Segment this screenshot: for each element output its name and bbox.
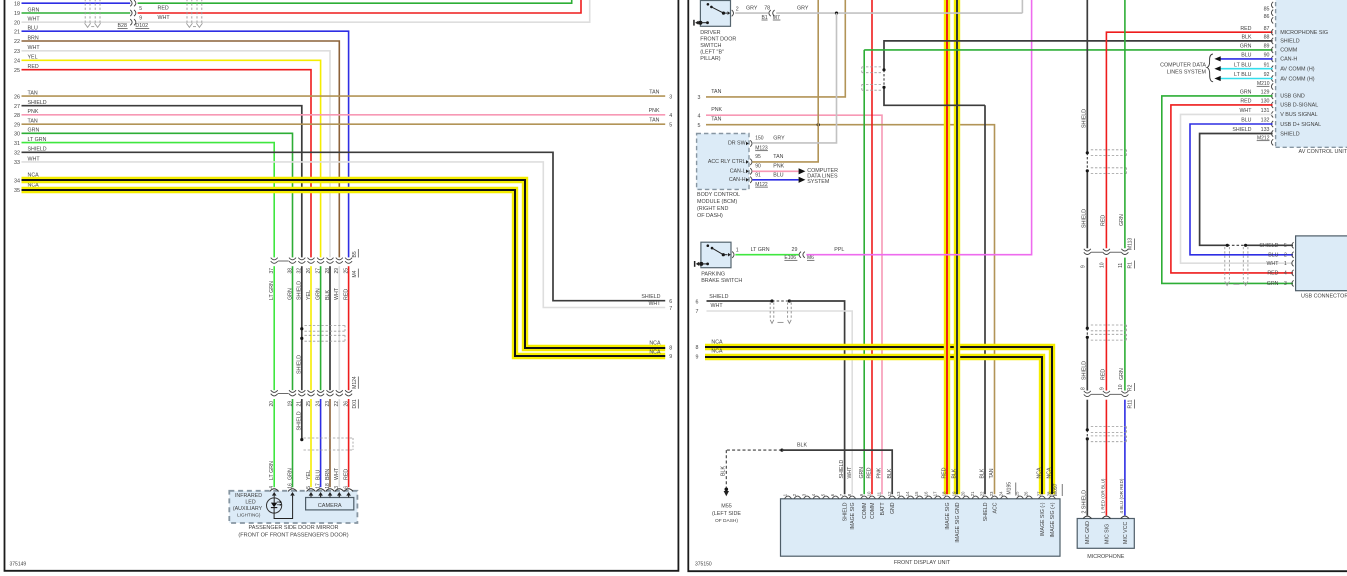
svg-text:TAN: TAN	[773, 154, 783, 160]
svg-text:BLU: BLU	[315, 470, 321, 480]
svg-text:38: 38	[287, 268, 293, 274]
svg-text:2 SHIELD: 2 SHIELD	[1082, 490, 1088, 514]
svg-text:BLU: BLU	[1241, 118, 1251, 124]
svg-text:78: 78	[764, 6, 770, 12]
ground symbol M55	[725, 488, 729, 492]
svg-text:LIGHTING): LIGHTING)	[237, 512, 261, 517]
svg-text:DR SW: DR SW	[728, 141, 746, 147]
svg-text:IMAGE SIG (-): IMAGE SIG (-)	[1040, 502, 1046, 536]
svg-text:WHT: WHT	[847, 466, 853, 479]
svg-text:BLK: BLK	[980, 468, 986, 478]
svg-text:COMPUTER DATA: COMPUTER DATA	[1160, 63, 1206, 69]
right page border	[688, 0, 1347, 571]
wire 19 GRN (left of B28)	[22, 12, 131, 14]
svg-text:1: 1	[1284, 261, 1287, 267]
svg-text:SHIELD: SHIELD	[297, 355, 303, 374]
svg-text:95: 95	[755, 154, 761, 160]
wire 22 BRN turns down	[22, 41, 340, 257]
svg-text:SHIELD: SHIELD	[297, 281, 303, 300]
svg-text:AV COMM (H): AV COMM (H)	[1280, 67, 1315, 73]
BCM tap junction on wire 5	[817, 123, 820, 126]
svg-text:SHIELD: SHIELD	[1280, 131, 1300, 137]
svg-text:GRY: GRY	[746, 6, 758, 12]
PPL wire to top edge	[806, 0, 1031, 255]
wire 30 GRN turns down	[22, 133, 293, 257]
svg-text:17: 17	[933, 491, 938, 496]
svg-text:NCA: NCA	[649, 349, 661, 355]
svg-text:4: 4	[811, 493, 816, 496]
svg-text:19: 19	[952, 491, 957, 496]
svg-text:LT GRN: LT GRN	[269, 281, 275, 300]
wire 4 PNK from left edge down to display BATT	[706, 115, 882, 494]
svg-text:RED: RED	[1240, 99, 1251, 105]
svg-text:M113: M113	[1128, 238, 1134, 250]
svg-text:FRONT DISPLAY UNIT: FRONT DISPLAY UNIT	[894, 560, 951, 566]
LED wiring to pin 16	[274, 496, 293, 519]
svg-text:AV CONTROL UNIT: AV CONTROL UNIT	[1299, 149, 1347, 155]
inline connector R2/R11 (mic pigtail)	[1084, 391, 1091, 393]
svg-text:TAN: TAN	[649, 118, 659, 124]
svg-text:SHIELD: SHIELD	[1082, 109, 1088, 128]
svg-text:32: 32	[297, 268, 303, 274]
shield termination dot and dashed shield box above mirror	[300, 438, 303, 441]
svg-text:GRN: GRN	[315, 288, 321, 300]
svg-text:5: 5	[139, 6, 142, 12]
svg-text:6: 6	[830, 493, 835, 496]
COMM RED vertical from top to display	[871, 0, 873, 494]
svg-text:GRN: GRN	[287, 288, 293, 300]
svg-text:SHIELD: SHIELD	[983, 502, 989, 521]
svg-text:23: 23	[14, 49, 20, 55]
door switch ground	[698, 21, 702, 25]
svg-text:150: 150	[755, 136, 764, 142]
svg-text:BLU: BLU	[1241, 53, 1251, 59]
BLK GND wire to display	[780, 449, 783, 452]
svg-text:SHIELD: SHIELD	[641, 294, 660, 300]
svg-text:SYSTEM: SYSTEM	[807, 179, 830, 185]
svg-text:CAN-L: CAN-L	[730, 169, 746, 175]
svg-text:SHIELD: SHIELD	[709, 294, 728, 300]
wire 9 NCA thick to display IMAGE SIG (-)	[705, 357, 1042, 494]
svg-text:22: 22	[334, 401, 340, 407]
svg-text:GRN: GRN	[1119, 214, 1125, 226]
svg-text:9: 9	[669, 354, 672, 360]
wire 5 TAN from left edge to display ACC	[706, 125, 995, 495]
svg-text:PPL: PPL	[834, 247, 844, 253]
svg-text:TAN: TAN	[649, 89, 659, 95]
svg-text:2: 2	[736, 6, 739, 12]
svg-text:WHT: WHT	[1239, 108, 1252, 114]
svg-text:21: 21	[297, 401, 303, 407]
shield loop around wire 7	[769, 303, 771, 320]
svg-text:129: 129	[1261, 90, 1270, 96]
wire 3 TAN from left edge up to top	[706, 0, 845, 97]
svg-text:27: 27	[14, 104, 20, 110]
svg-text:15: 15	[914, 491, 919, 496]
svg-text:GRN: GRN	[859, 467, 865, 479]
lower inline connector M124/D01	[271, 390, 278, 392]
svg-text:9: 9	[1099, 387, 1105, 390]
svg-text:BLU: BLU	[1268, 252, 1278, 258]
svg-text:B5: B5	[352, 251, 358, 257]
COMM GRN vertical to display	[863, 50, 865, 494]
svg-text:(FRONT OF FRONT PASSENGER'S DO: (FRONT OF FRONT PASSENGER'S DOOR)	[238, 533, 348, 539]
svg-text:3: 3	[1284, 281, 1287, 287]
svg-text:20: 20	[14, 20, 20, 26]
svg-text:WHT: WHT	[711, 303, 724, 309]
svg-text:V BUS SIGNAL: V BUS SIGNAL	[1280, 112, 1317, 118]
svg-text:YEL: YEL	[306, 470, 312, 480]
svg-text:LT GRN: LT GRN	[269, 461, 275, 480]
svg-text:CAN-H: CAN-H	[729, 177, 746, 183]
svg-text:USB CONNECTOR: USB CONNECTOR	[1301, 294, 1347, 300]
wire 21 BLU turns down into bundle	[22, 31, 349, 257]
AV control unit box (dashed)	[1276, 0, 1347, 147]
svg-text:NCA: NCA	[649, 341, 661, 347]
svg-text:10: 10	[1099, 262, 1105, 268]
svg-text:2: 2	[1284, 252, 1287, 258]
svg-text:IMAGE SIG: IMAGE SIG	[945, 503, 951, 530]
svg-text:M124: M124	[352, 376, 358, 389]
svg-text:COMM: COMM	[1280, 48, 1298, 54]
svg-text:LED: LED	[245, 500, 255, 506]
svg-text:BLK: BLK	[952, 468, 958, 478]
svg-text:SHIELD: SHIELD	[1082, 361, 1088, 380]
svg-text:8: 8	[1080, 387, 1086, 390]
svg-text:24: 24	[14, 59, 20, 65]
shield loop symbol A over wires 18-20	[84, 0, 86, 23]
connector B1/M7	[769, 10, 771, 16]
svg-text:5: 5	[697, 123, 700, 129]
MICROPHONE SIG RED wire AV pin 87 down	[1106, 32, 1272, 248]
svg-text:28: 28	[1047, 491, 1052, 496]
svg-text:M097: M097	[1053, 483, 1059, 496]
shield loop symbol B over wires 18-20	[186, 0, 188, 23]
driver front door switch box	[700, 1, 730, 27]
wire 31 LT GRN turns down	[22, 143, 275, 258]
svg-text:133: 133	[1261, 127, 1270, 133]
svg-text:90: 90	[1264, 53, 1270, 59]
wire 25 RED turns down	[22, 70, 312, 258]
svg-text:SHIELD: SHIELD	[1259, 243, 1278, 249]
wire 20 WHT (right of D102, exits top)	[138, 0, 590, 22]
svg-text:86: 86	[1264, 14, 1270, 20]
svg-text:3: 3	[697, 95, 700, 101]
dashed shield box around mic pair (upper)	[1091, 149, 1127, 151]
svg-text:MICROPHONE: MICROPHONE	[1087, 554, 1125, 560]
svg-text:D01: D01	[352, 399, 358, 408]
svg-text:PNK: PNK	[773, 164, 784, 170]
svg-text:375149: 375149	[10, 562, 27, 568]
svg-text:WHT: WHT	[158, 15, 171, 21]
svg-text:9: 9	[1080, 265, 1086, 268]
wire 19 RED (right of D102, exits top)	[138, 0, 581, 13]
svg-text:WHT: WHT	[334, 467, 340, 480]
svg-text:25: 25	[1015, 491, 1020, 496]
svg-text:GRN: GRN	[1267, 281, 1279, 287]
wire 24 YEL turns down	[22, 60, 321, 257]
svg-text:8: 8	[669, 345, 672, 351]
bundle wires between inline connectors	[273, 266, 275, 390]
USB D+ SIGNAL BLU wire	[1190, 124, 1293, 255]
M55 ground wiring (dashed BLK)	[726, 449, 782, 451]
svg-text:21: 21	[970, 491, 975, 496]
svg-text:130: 130	[1261, 99, 1270, 105]
wire 35 NCA thick exits right (9)	[22, 190, 666, 356]
svg-text:BATT: BATT	[880, 502, 886, 516]
bundle wires below lower connector into mirror	[273, 399, 275, 487]
svg-text:14: 14	[905, 491, 910, 496]
body control module box (dashed)	[697, 134, 749, 190]
svg-text:CAMERA: CAMERA	[318, 503, 342, 509]
microphone box	[1077, 519, 1134, 549]
svg-text:MODULE (BCM): MODULE (BCM)	[697, 199, 737, 205]
svg-text:IMAGE SIG: IMAGE SIG	[850, 503, 856, 530]
GRY junction dot and drop to BCM DR SW	[835, 12, 838, 15]
svg-text:RED: RED	[1101, 369, 1107, 380]
svg-text:GRN: GRN	[1240, 90, 1252, 96]
svg-text:WHT: WHT	[334, 287, 340, 300]
svg-text:RED: RED	[1267, 271, 1278, 277]
svg-text:GND: GND	[890, 502, 896, 514]
svg-text:LT BLU: LT BLU	[1234, 72, 1252, 78]
wire 29 TAN exits right (5)	[22, 123, 666, 125]
camera pin stubs	[310, 496, 312, 498]
svg-text:375150: 375150	[695, 562, 712, 568]
svg-text:22: 22	[980, 491, 985, 496]
AV shield wire pin 88 path	[884, 41, 1273, 70]
svg-text:RED: RED	[158, 6, 169, 12]
wire 6 SHIELD from left edge to display	[707, 300, 773, 302]
svg-text:PNK: PNK	[649, 108, 660, 114]
svg-text:COMM: COMM	[870, 503, 876, 519]
svg-text:25: 25	[14, 68, 20, 74]
COMM GRN wire AV pin 89 horizontal	[864, 49, 1272, 51]
svg-text:17: 17	[315, 483, 321, 489]
svg-text:LT GRN: LT GRN	[751, 247, 770, 253]
dashed shield box around GRN/RED verticals (left)	[862, 66, 882, 68]
inline connector M113/R1 (mic wires)	[1084, 249, 1091, 251]
svg-text:4: 4	[697, 113, 700, 119]
svg-text:RED: RED	[1240, 26, 1251, 32]
svg-text:INFRARED: INFRARED	[235, 493, 262, 499]
svg-text:COMM: COMM	[862, 503, 868, 519]
svg-text:19: 19	[287, 401, 293, 407]
svg-text:92: 92	[1264, 72, 1270, 78]
svg-text:M55: M55	[721, 503, 732, 509]
thick RED image sig cable from top	[944, 0, 950, 494]
svg-text:RED: RED	[867, 467, 873, 478]
svg-text:LT BLU: LT BLU	[1234, 62, 1252, 68]
svg-text:33: 33	[14, 160, 20, 166]
wire 32 SHIELD exits right (6)	[22, 152, 666, 300]
svg-text:89: 89	[1264, 44, 1270, 50]
svg-text:MICROPHONE SIG: MICROPHONE SIG	[1280, 30, 1328, 36]
svg-text:10: 10	[1118, 384, 1124, 390]
V BUS SIGNAL WHT wire	[1181, 114, 1294, 263]
svg-text:18: 18	[942, 491, 947, 496]
svg-text:7: 7	[839, 493, 844, 496]
svg-text:PNK: PNK	[711, 107, 722, 113]
wire 18 GRN (right of D102, exits top)	[138, 0, 572, 3]
svg-text:GRY: GRY	[773, 136, 785, 142]
wire 26 TAN exits right (3)	[22, 95, 666, 97]
USB GND GRN wire	[1162, 96, 1293, 284]
svg-text:SHIELD: SHIELD	[842, 502, 848, 521]
svg-text:16: 16	[287, 483, 293, 489]
wire 34 NCA thick exits right (8)	[22, 180, 666, 348]
svg-text:(LEFT "B": (LEFT "B"	[700, 50, 724, 56]
svg-text:7: 7	[669, 306, 672, 312]
svg-text:USB GND: USB GND	[1280, 94, 1305, 100]
svg-text:26: 26	[306, 268, 312, 274]
svg-text:23: 23	[989, 491, 994, 496]
svg-text:7: 7	[696, 309, 699, 315]
svg-text:TAN: TAN	[711, 117, 721, 123]
svg-text:DRIVER: DRIVER	[700, 30, 720, 36]
svg-text:RED: RED	[343, 289, 349, 300]
svg-text:1 RED (OR BLU): 1 RED (OR BLU)	[1101, 478, 1106, 513]
svg-text:131: 131	[1261, 108, 1270, 114]
svg-text:YEL: YEL	[306, 290, 312, 300]
svg-text:(RIGHT END: (RIGHT END	[697, 206, 728, 212]
svg-text:USB D+ SIGNAL: USB D+ SIGNAL	[1280, 122, 1321, 128]
svg-text:SWITCH: SWITCH	[700, 43, 721, 49]
CAMERA box	[306, 498, 354, 510]
upper inline connector B5/M4	[271, 258, 278, 260]
svg-text:RED: RED	[343, 469, 349, 480]
svg-text:WHT: WHT	[648, 301, 661, 307]
svg-text:9: 9	[139, 15, 142, 21]
svg-text:35: 35	[14, 188, 20, 194]
USB connector box	[1296, 236, 1347, 291]
svg-text:90: 90	[755, 164, 761, 170]
svg-text:BLK: BLK	[721, 466, 727, 476]
svg-text:20: 20	[269, 401, 275, 407]
USB SHIELD BLK wire with drain dots	[1200, 134, 1273, 246]
passenger side door mirror box	[229, 491, 357, 523]
svg-text:WHT: WHT	[1266, 261, 1279, 267]
wire 18 BLU (left of B28)	[22, 2, 131, 4]
svg-text:10: 10	[867, 491, 872, 496]
svg-text:CAN-H: CAN-H	[1280, 57, 1297, 63]
wire 20 WHT (left of B28)	[22, 21, 131, 23]
svg-text:19: 19	[14, 11, 20, 17]
svg-text:SHIELD: SHIELD	[839, 460, 845, 479]
connector E106/M6	[799, 252, 801, 258]
svg-text:MIC SIG: MIC SIG	[1104, 524, 1110, 544]
svg-text:4: 4	[669, 113, 672, 119]
svg-text:(AUXILIARY: (AUXILIARY	[233, 506, 263, 512]
svg-text:GRY: GRY	[797, 6, 809, 12]
thick BLK image sig gnd cable from top	[954, 0, 960, 494]
long SHIELD vertical from top	[1086, 0, 1088, 153]
parking brake switch ground	[699, 262, 703, 266]
BCM CAN-H BLU wire to arrow	[752, 179, 798, 181]
svg-text:3: 3	[669, 94, 672, 100]
computer data lines brace and caption	[1207, 54, 1213, 82]
svg-text:TAN: TAN	[989, 468, 995, 478]
wire 27 SHIELD turns down	[22, 106, 302, 258]
svg-text:34: 34	[14, 178, 20, 184]
front display unit box	[781, 499, 1061, 556]
svg-text:4: 4	[1284, 271, 1287, 277]
AV COMM LT BLU wires with arrows	[1221, 68, 1273, 70]
svg-text:BLU: BLU	[773, 172, 783, 178]
dashed shield box around mic pair (lower)	[1091, 426, 1127, 428]
svg-text:MIC VCC: MIC VCC	[1123, 521, 1129, 544]
svg-text:PNK: PNK	[877, 467, 883, 478]
svg-text:ACC RLY CTRL: ACC RLY CTRL	[708, 159, 746, 165]
svg-text:USB D-SIGNAL: USB D-SIGNAL	[1280, 103, 1318, 109]
svg-text:24: 24	[315, 401, 321, 407]
door switch GRY wire to junction	[735, 12, 768, 14]
svg-text:SHIELD: SHIELD	[1280, 39, 1300, 45]
svg-text:BODY CONTROL: BODY CONTROL	[697, 192, 740, 198]
svg-text:RED: RED	[942, 467, 948, 478]
svg-text:23: 23	[325, 401, 331, 407]
svg-text:LINES SYSTEM: LINES SYSTEM	[1167, 69, 1207, 75]
svg-text:29: 29	[14, 122, 20, 128]
left page border	[5, 0, 679, 571]
svg-text:132: 132	[1261, 118, 1270, 124]
svg-text:M195: M195	[1007, 482, 1013, 495]
svg-text:27: 27	[315, 268, 321, 274]
shield drain dots and dashed shield boxes mid-bundle	[300, 327, 303, 330]
svg-text:9: 9	[859, 493, 864, 496]
svg-text:12: 12	[887, 491, 892, 496]
svg-text:ACC: ACC	[992, 502, 998, 513]
svg-text:18: 18	[325, 483, 331, 489]
mic wires between connectors	[1086, 258, 1088, 329]
svg-text:2: 2	[792, 493, 797, 496]
svg-text:8: 8	[847, 493, 852, 496]
svg-text:SHIELD: SHIELD	[1082, 209, 1088, 228]
svg-text:BRAKE SWITCH: BRAKE SWITCH	[701, 278, 742, 284]
svg-text:22: 22	[14, 39, 20, 45]
BCM CAN-L PNK wire to arrow	[752, 170, 798, 172]
svg-text:M4: M4	[352, 270, 358, 277]
svg-text:91: 91	[1264, 62, 1270, 68]
svg-text:6: 6	[696, 300, 699, 306]
svg-text:31: 31	[14, 141, 20, 147]
svg-text:MIC GND: MIC GND	[1085, 521, 1091, 544]
svg-text:BLK: BLK	[1241, 35, 1251, 41]
svg-text:13: 13	[896, 491, 901, 496]
svg-text:9: 9	[696, 355, 699, 361]
GRY wire continues and turns up to top edge	[776, 12, 1022, 14]
svg-text:BRN: BRN	[325, 469, 331, 480]
svg-text:85: 85	[1264, 6, 1270, 12]
svg-text:NCA: NCA	[711, 349, 723, 355]
svg-text:NCA: NCA	[1037, 467, 1043, 478]
svg-text:1: 1	[736, 247, 739, 253]
svg-text:26: 26	[1024, 491, 1029, 496]
svg-text:21: 21	[14, 29, 20, 35]
svg-text:30: 30	[14, 132, 20, 138]
BCM ACC RLY CTRL TAN wire up through wire-5 tap to top edge	[752, 0, 818, 162]
svg-text:SHIELD: SHIELD	[1232, 127, 1251, 133]
svg-text:AV COMM (H): AV COMM (H)	[1280, 76, 1315, 82]
svg-text:OF DASH): OF DASH)	[697, 213, 723, 219]
shield loop around USB wires	[1224, 247, 1226, 281]
svg-text:91: 91	[755, 172, 761, 178]
svg-text:3: 3	[802, 493, 807, 496]
svg-text:IMAGE SIG (+): IMAGE SIG (+)	[1050, 502, 1056, 537]
svg-text:RED: RED	[1101, 215, 1107, 226]
dashed shield box around mic pair (mid)	[1091, 324, 1127, 326]
svg-text:PARKING: PARKING	[701, 272, 725, 278]
